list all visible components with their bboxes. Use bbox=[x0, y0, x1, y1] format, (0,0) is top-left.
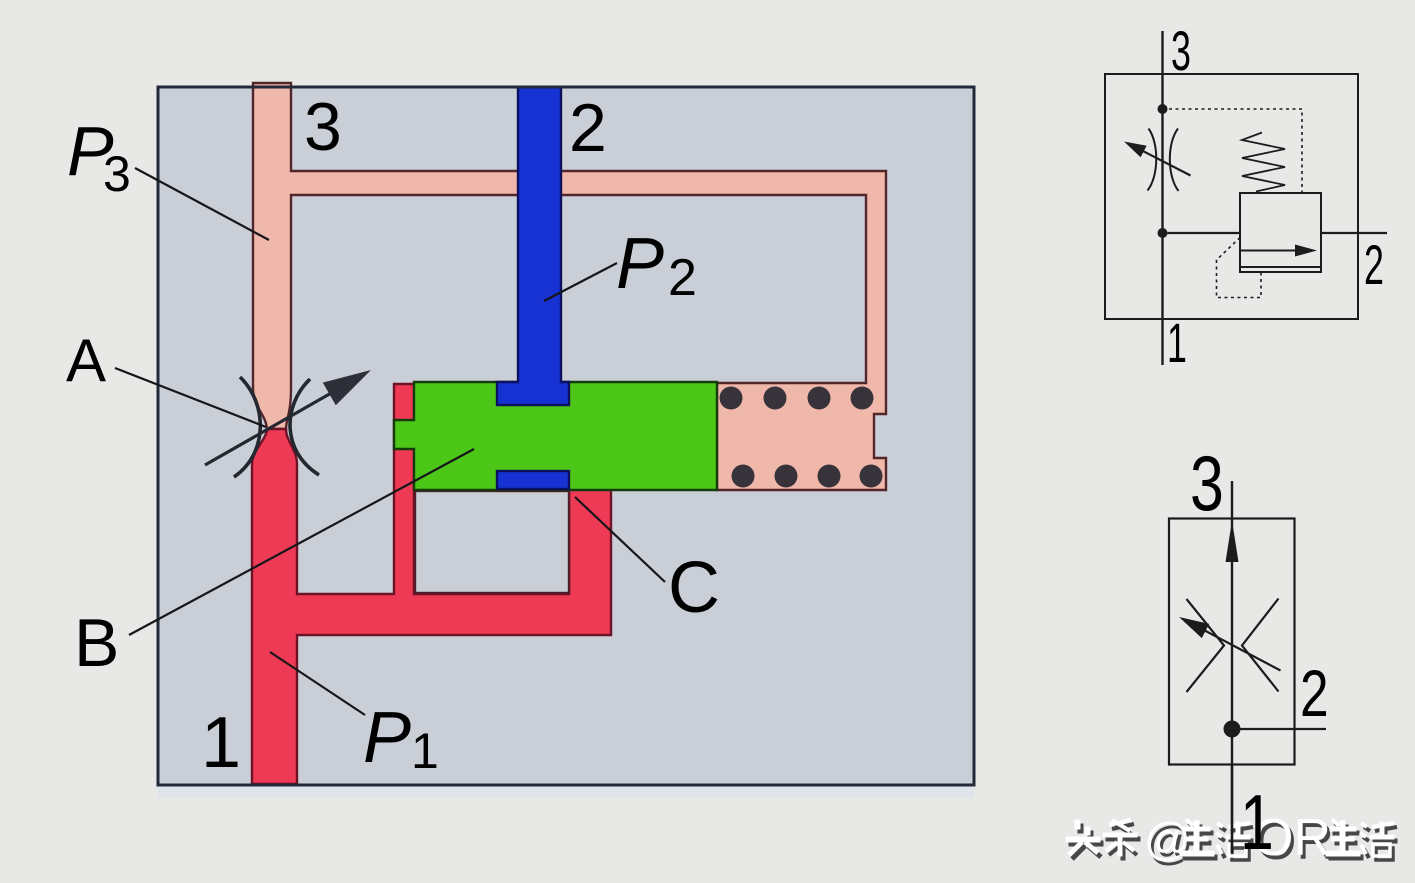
spring bbox=[1242, 133, 1285, 192]
svg-text:3: 3 bbox=[1171, 19, 1191, 82]
dashed drain line bbox=[1217, 238, 1262, 298]
svg-text:P: P bbox=[363, 698, 411, 778]
svg-text:C: C bbox=[668, 548, 720, 628]
green spool bbox=[394, 382, 717, 490]
port 1 red passage P1 (venturi outlet, vertical channel, bottom gallery, feed strip, C channel) bbox=[252, 384, 611, 784]
throttle adjust arrow bbox=[1138, 149, 1191, 176]
lower division line bbox=[1240, 266, 1321, 268]
shadow strip under body bbox=[158, 787, 974, 798]
node at line 2 bbox=[1158, 228, 1168, 238]
B pointer line bbox=[129, 449, 474, 635]
throttle A adjust arrow bbox=[205, 388, 340, 465]
P1 pointer line bbox=[270, 652, 365, 715]
right chevron bbox=[1242, 599, 1279, 692]
spring coil dots bottom row bbox=[732, 465, 755, 488]
valve body border bbox=[158, 87, 974, 785]
throttle A arcs bbox=[234, 377, 260, 477]
port 2 line bbox=[1232, 728, 1326, 730]
gray piston guide block bbox=[415, 491, 569, 593]
svg-text:2: 2 bbox=[1364, 233, 1384, 296]
A pointer line bbox=[115, 368, 266, 427]
center flow line lower overlay bbox=[1231, 764, 1233, 853]
svg-text:P: P bbox=[616, 224, 664, 304]
watermark shadow bbox=[1069, 813, 1397, 871]
center flow line bbox=[1231, 481, 1233, 853]
svg-text:A: A bbox=[66, 327, 106, 394]
port 3 pink passage P3 (vertical channel, top gallery, right pipe, spring chamber) bbox=[253, 83, 886, 490]
svg-text:2: 2 bbox=[569, 90, 607, 166]
watermark white bbox=[1066, 809, 1394, 867]
up arrowhead bbox=[1226, 521, 1239, 563]
svg-text:3: 3 bbox=[103, 146, 131, 202]
port 2 blue passage P2 (pipe + upper tab) bbox=[497, 87, 569, 405]
svg-text:2: 2 bbox=[668, 249, 697, 307]
blue lower tab C seat bbox=[497, 471, 569, 489]
adjust arrow bbox=[1200, 628, 1281, 671]
left chevron bbox=[1187, 599, 1225, 692]
svg-text:1: 1 bbox=[411, 723, 439, 779]
svg-text:@: @ bbox=[1144, 813, 1191, 865]
horizontal line 2 bbox=[1168, 232, 1388, 234]
svg-text:2: 2 bbox=[1300, 656, 1329, 731]
C pointer line bbox=[575, 497, 665, 582]
svg-text:3: 3 bbox=[1190, 440, 1224, 527]
throttle arcs bbox=[1148, 129, 1157, 191]
symbol box bbox=[1169, 519, 1295, 765]
valve body block bbox=[158, 87, 974, 785]
svg-text:B: B bbox=[74, 605, 119, 681]
node dot port 2 bbox=[1224, 721, 1241, 738]
main vertical line 3-1 bbox=[1161, 31, 1163, 365]
symbol outer box bbox=[1105, 74, 1358, 319]
spring coil dots top row bbox=[720, 387, 743, 410]
node at pilot takeoff bbox=[1158, 104, 1168, 114]
svg-text:1: 1 bbox=[201, 703, 241, 783]
P2 pointer line bbox=[544, 263, 617, 301]
dotted pilot line bbox=[1163, 109, 1303, 193]
svg-text:1: 1 bbox=[1167, 311, 1187, 374]
P3 pointer line bbox=[135, 168, 269, 240]
svg-text:3: 3 bbox=[304, 89, 342, 165]
flow arrow inside box bbox=[1240, 250, 1300, 252]
check valve box bbox=[1240, 193, 1321, 272]
svg-text:1: 1 bbox=[1240, 779, 1274, 866]
